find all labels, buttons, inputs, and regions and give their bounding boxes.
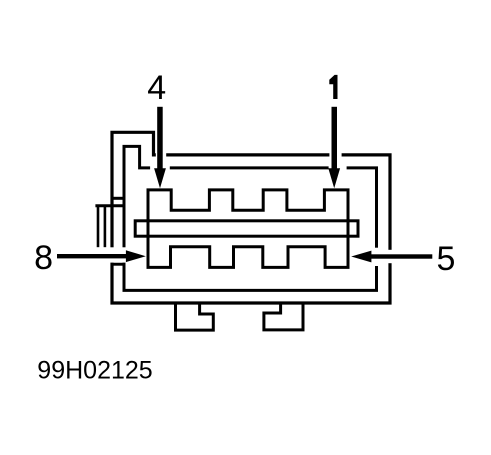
svg-text:5: 5: [436, 240, 455, 278]
svg-text:99H02125: 99H02125: [37, 357, 152, 385]
svg-text:4: 4: [147, 69, 166, 107]
svg-text:8: 8: [34, 239, 53, 277]
